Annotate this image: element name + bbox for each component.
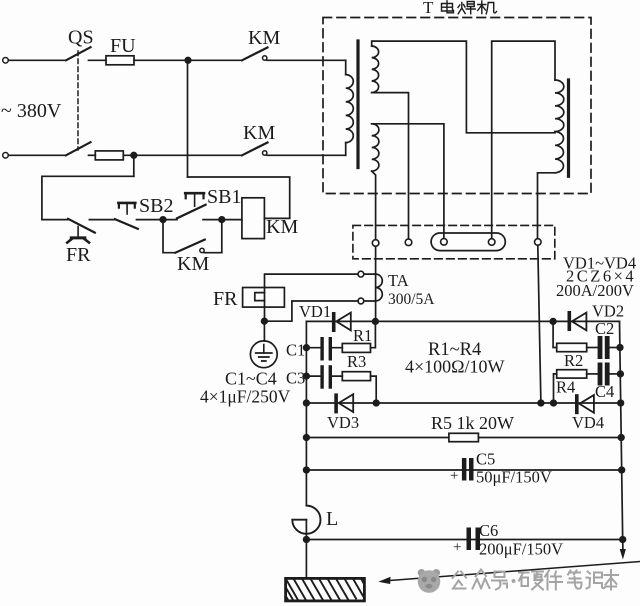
node C junction xyxy=(160,217,166,223)
thermal relay FR heater element box xyxy=(243,288,285,308)
wire rail B up to node A xyxy=(187,60,189,177)
node I junction (R3 tap) xyxy=(373,400,379,406)
svg-text:4×1μF/250V: 4×1μF/250V xyxy=(200,387,291,407)
wire L exit down xyxy=(305,520,307,579)
node E junction xyxy=(262,318,268,324)
node C2-right junction xyxy=(617,345,623,351)
SB1 plunger xyxy=(185,192,204,195)
SB2 plunger xyxy=(118,202,135,205)
svg-text:4×100Ω/10W: 4×100Ω/10W xyxy=(405,357,505,377)
svg-text:200μF/150V: 200μF/150V xyxy=(479,540,563,559)
wire FU to node A xyxy=(134,59,242,61)
terminal 2 xyxy=(405,239,412,246)
svg-text:FU: FU xyxy=(110,35,136,57)
node R5-right junction xyxy=(618,435,624,441)
watermark panda logo xyxy=(418,569,441,593)
wire W2 bottom to terminal 1 xyxy=(372,171,376,240)
tap selector link (terminals 3-4) xyxy=(431,233,505,251)
svg-text:FR: FR xyxy=(213,288,238,310)
thermal relay FR contact blade xyxy=(68,219,95,233)
transformer secondary winding W4 (lower right) xyxy=(555,132,563,173)
wire KM1 to transformer primary xyxy=(267,59,346,61)
wire W4 bottom to terminal 5 xyxy=(538,173,556,239)
wire terminal 1 down through TA to bridge node xyxy=(375,246,377,321)
wire KM2 to transformer primary bottom xyxy=(267,154,346,156)
fuse FU (line 1) xyxy=(106,56,134,65)
node J junction (terminal 5 bus lands) xyxy=(538,400,544,406)
terminal 5 xyxy=(535,239,542,246)
wire C6 row xyxy=(306,539,622,541)
wire FU2 to node B and KM2 xyxy=(123,154,242,156)
svg-text:~ 380V: ~ 380V xyxy=(1,100,62,122)
svg-text:KM: KM xyxy=(243,122,275,144)
wire R1 to node F xyxy=(371,321,376,347)
svg-text:C3: C3 xyxy=(286,369,305,388)
capacitor C1 plates xyxy=(320,337,323,361)
wire bridge top row xyxy=(306,320,619,322)
node F junction (TA lands on top row) xyxy=(373,319,379,325)
TA secondary terminal circle bottom xyxy=(358,298,364,304)
wire R2 to C2 xyxy=(587,347,598,349)
capacitor C6 plates (electrolytic) xyxy=(467,528,472,551)
transformer T dashed enclosure xyxy=(323,18,591,194)
node D junction xyxy=(219,217,225,223)
contactor coil KM xyxy=(242,198,265,239)
node B junction xyxy=(131,153,137,159)
wire L1 to QS xyxy=(8,59,66,61)
terminal 3 xyxy=(441,239,448,246)
node H junction (left bus bottom row) xyxy=(304,400,310,406)
wire primary top lead xyxy=(345,60,347,74)
diode VD4 xyxy=(575,394,579,414)
wire C4 to right bus xyxy=(610,373,621,375)
svg-text:VD2: VD2 xyxy=(592,302,624,321)
FR heater internal notch xyxy=(255,293,265,301)
svg-text:200A/200V: 200A/200V xyxy=(556,281,634,300)
wire control rail left segment xyxy=(42,176,134,219)
wire C5 row xyxy=(306,469,621,471)
capacitor C4 plates xyxy=(598,363,603,386)
node R5-left junction xyxy=(304,435,310,441)
wire L2 to QS xyxy=(8,154,66,156)
svg-text:R5 1k 20W: R5 1k 20W xyxy=(431,413,514,433)
switch QS pole 1 xyxy=(66,47,91,60)
contactor KM auxiliary contact blade xyxy=(175,240,205,253)
terminal strip dashed enclosure xyxy=(353,225,555,258)
stop button SB2 blade xyxy=(115,219,138,229)
node G junction (R2 tap) xyxy=(550,319,556,325)
wire C1 row xyxy=(306,347,342,349)
contactor KM main contact 1 xyxy=(242,48,268,61)
resistor R2 xyxy=(557,343,587,351)
svg-text:R4: R4 xyxy=(556,378,575,397)
wire R3 down to bottom row xyxy=(371,376,377,403)
wire R5 row xyxy=(306,437,621,439)
wire primary bottom lead xyxy=(345,143,347,156)
fuse FU (line 2) xyxy=(95,151,123,160)
svg-text:KM: KM xyxy=(248,27,280,49)
wire bridge left bus xyxy=(305,321,307,505)
wire node B drop to control rail xyxy=(133,155,135,176)
KM aux fixed terminal circle xyxy=(200,248,204,252)
contactor KM main contact 2 xyxy=(242,143,268,156)
wire node E to chassis capacitor symbol xyxy=(263,321,265,341)
svg-text:50μF/150V: 50μF/150V xyxy=(476,468,552,487)
svg-text:C4: C4 xyxy=(595,382,614,401)
TA terminal stubs xyxy=(364,274,376,301)
wire TA bottom terminal to node E xyxy=(267,301,358,321)
resistor R4 xyxy=(557,370,587,378)
transformer T primary winding xyxy=(346,75,354,143)
svg-text:C5: C5 xyxy=(476,450,495,469)
wire bridge bottom row xyxy=(306,402,620,404)
wire SB1 to KM coil xyxy=(203,219,242,221)
node C3-left junction xyxy=(304,373,310,379)
svg-text:TA: TA xyxy=(388,271,409,290)
wire bridge right bus xyxy=(620,321,623,540)
KM contact 1 fixed terminal circle xyxy=(263,56,267,60)
transformer T left core bar xyxy=(356,41,359,168)
wire node G down to R2 xyxy=(553,321,557,347)
wire W2 top to terminal 3 xyxy=(372,124,444,239)
svg-text:R3: R3 xyxy=(347,352,366,371)
svg-text:KM: KM xyxy=(177,253,209,275)
resistor R3 xyxy=(342,372,370,381)
svg-text:C6: C6 xyxy=(479,521,498,540)
label 电焊机 (welding machine) stroke glyphs xyxy=(442,1,497,14)
switch QS pole 2 xyxy=(66,142,91,155)
node C6-left junction xyxy=(304,537,310,543)
FR contact actuator mark xyxy=(77,227,79,237)
transformer secondary winding W3 (upper right) xyxy=(555,80,564,132)
wire QS to FU xyxy=(89,59,107,61)
wire KM coil to rail B xyxy=(188,177,290,218)
electrode cable arrow (diagonal) xyxy=(387,562,640,581)
svg-text:R2: R2 xyxy=(564,351,583,370)
svg-text:C1~C4: C1~C4 xyxy=(225,369,277,389)
wire C2 to right bus xyxy=(610,347,620,349)
wire terminal 5 down to bridge bottom row xyxy=(538,245,541,403)
capacitor C3 plates xyxy=(320,365,323,389)
KM contact 2 fixed terminal circle xyxy=(263,151,267,155)
inductor L (reactor) xyxy=(292,506,320,534)
transformer T right core bar xyxy=(567,80,570,176)
diode VD2 xyxy=(568,311,572,331)
node C5-right junction xyxy=(619,467,625,473)
terminal 1 xyxy=(372,240,379,247)
svg-text:QS: QS xyxy=(68,27,94,49)
current transformer TA winding arcs xyxy=(376,274,383,301)
wire TA top terminal to FR heater xyxy=(265,274,359,287)
wire KM aux back up to node D xyxy=(204,220,222,253)
svg-text:C2: C2 xyxy=(595,319,614,338)
node A junction xyxy=(185,58,191,64)
node C4-right junction xyxy=(618,371,624,377)
watermark text 公众号·硬件笔记本 (stroke glyphs) xyxy=(453,570,619,590)
wire SB2 to SB1 xyxy=(137,219,178,221)
node C6-right junction xyxy=(620,537,626,543)
svg-text:SB1: SB1 xyxy=(207,186,241,208)
diode VD1 xyxy=(332,312,336,332)
capacitor C2 plates xyxy=(598,336,603,359)
resistor R1 xyxy=(342,344,370,353)
workpiece (hatched block) xyxy=(286,578,365,601)
svg-text:VD3: VD3 xyxy=(327,413,359,432)
node K junction (R4 tap) xyxy=(551,400,557,406)
svg-text:300/5A: 300/5A xyxy=(388,291,435,308)
QS mechanical link (dashed) xyxy=(77,51,79,150)
transformer secondary winding W1 (upper left) xyxy=(372,46,379,93)
wire rail to FR contact xyxy=(42,219,68,221)
wire node K up to R4 xyxy=(554,374,557,403)
transformer secondary winding W2 (lower left) xyxy=(372,124,379,171)
svg-text:L: L xyxy=(326,508,338,530)
terminal 4 xyxy=(488,239,495,246)
svg-text:FR: FR xyxy=(66,244,91,266)
svg-text:R1: R1 xyxy=(353,326,372,345)
svg-text:KM: KM xyxy=(266,216,298,238)
TA secondary terminal circle top xyxy=(358,271,364,277)
svg-text:C1: C1 xyxy=(286,341,305,360)
svg-text:T: T xyxy=(423,0,434,17)
wire FR to SB2 xyxy=(89,219,115,221)
chassis ground circle symbol (C1~C4) xyxy=(250,341,277,368)
wire QS to FU line 2 xyxy=(89,154,96,156)
wire C3 row xyxy=(306,375,342,377)
terminal L2 (phase input 2) xyxy=(3,153,9,159)
start button SB1 blade xyxy=(177,205,206,219)
terminal L1 (phase input 1) xyxy=(3,58,9,64)
svg-text:SB2: SB2 xyxy=(139,195,173,217)
node C1-left junction xyxy=(304,345,310,351)
node C5-left junction xyxy=(304,467,310,473)
wire branch down to KM aux contact xyxy=(163,220,175,253)
electrode lead arrowhead (right bus end) xyxy=(622,540,624,550)
capacitor C5 plates (electrolytic) xyxy=(462,458,467,481)
diode VD3 xyxy=(334,393,338,413)
wire W1 top to right riser xyxy=(372,41,555,133)
resistor R5 xyxy=(449,433,479,441)
svg-text:+: + xyxy=(450,468,458,484)
wire W3 top to terminal 4 riser xyxy=(492,41,555,239)
svg-text:VD1: VD1 xyxy=(299,302,331,321)
svg-text:VD4: VD4 xyxy=(572,413,604,432)
FR heater conductor xyxy=(264,288,266,322)
wire W1 bottom to terminal 2 xyxy=(372,93,409,239)
svg-text:+: + xyxy=(453,540,461,556)
wire R4 to C4 xyxy=(587,373,598,375)
node bottom-right junction xyxy=(618,400,624,406)
